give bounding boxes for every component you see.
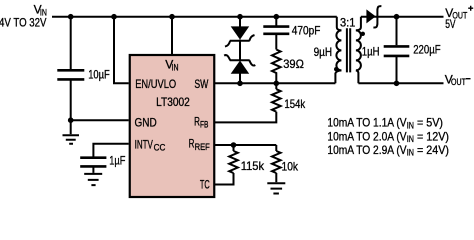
svg-text:= 5V): = 5V) (414, 116, 443, 130)
svg-text:1µF: 1µF (109, 153, 125, 167)
svg-text:= 24V): = 24V) (414, 143, 449, 157)
svg-text:4V TO 32V: 4V TO 32V (0, 15, 47, 29)
svg-text:154k: 154k (284, 97, 306, 111)
svg-text:EN/UVLO: EN/UVLO (135, 77, 176, 91)
svg-text:10mA TO 2.9A (V: 10mA TO 2.9A (V (327, 143, 406, 157)
svg-text:10mA TO 1.1A (V: 10mA TO 1.1A (V (327, 116, 406, 130)
svg-text:IN: IN (172, 63, 179, 73)
svg-text:9µH: 9µH (314, 45, 333, 59)
svg-text:TC: TC (200, 178, 210, 192)
svg-text:5V: 5V (445, 17, 455, 31)
svg-text:3:1: 3:1 (340, 15, 356, 29)
svg-text:IN: IN (407, 120, 414, 130)
svg-text:10µF: 10µF (88, 67, 110, 81)
svg-text:IN: IN (407, 134, 414, 144)
svg-text:INTV: INTV (135, 137, 153, 151)
svg-text:REF: REF (195, 142, 211, 152)
svg-text:OUT: OUT (451, 77, 466, 87)
svg-text:220µF: 220µF (413, 43, 440, 57)
svg-text:39Ω: 39Ω (283, 57, 304, 71)
svg-text:CC: CC (154, 142, 166, 152)
svg-text:1µH: 1µH (362, 45, 380, 59)
svg-text:470pF: 470pF (292, 23, 321, 37)
svg-text:10k: 10k (282, 160, 299, 174)
svg-text:LT3002: LT3002 (156, 95, 190, 109)
svg-text:10mA TO 2.0A (V: 10mA TO 2.0A (V (327, 129, 406, 143)
svg-text:IN: IN (407, 148, 414, 158)
svg-text:SW: SW (194, 77, 208, 91)
svg-text:FB: FB (200, 119, 208, 129)
svg-text:GND: GND (135, 115, 157, 129)
svg-text:115k: 115k (241, 159, 265, 173)
svg-text:= 12V): = 12V) (414, 129, 449, 143)
